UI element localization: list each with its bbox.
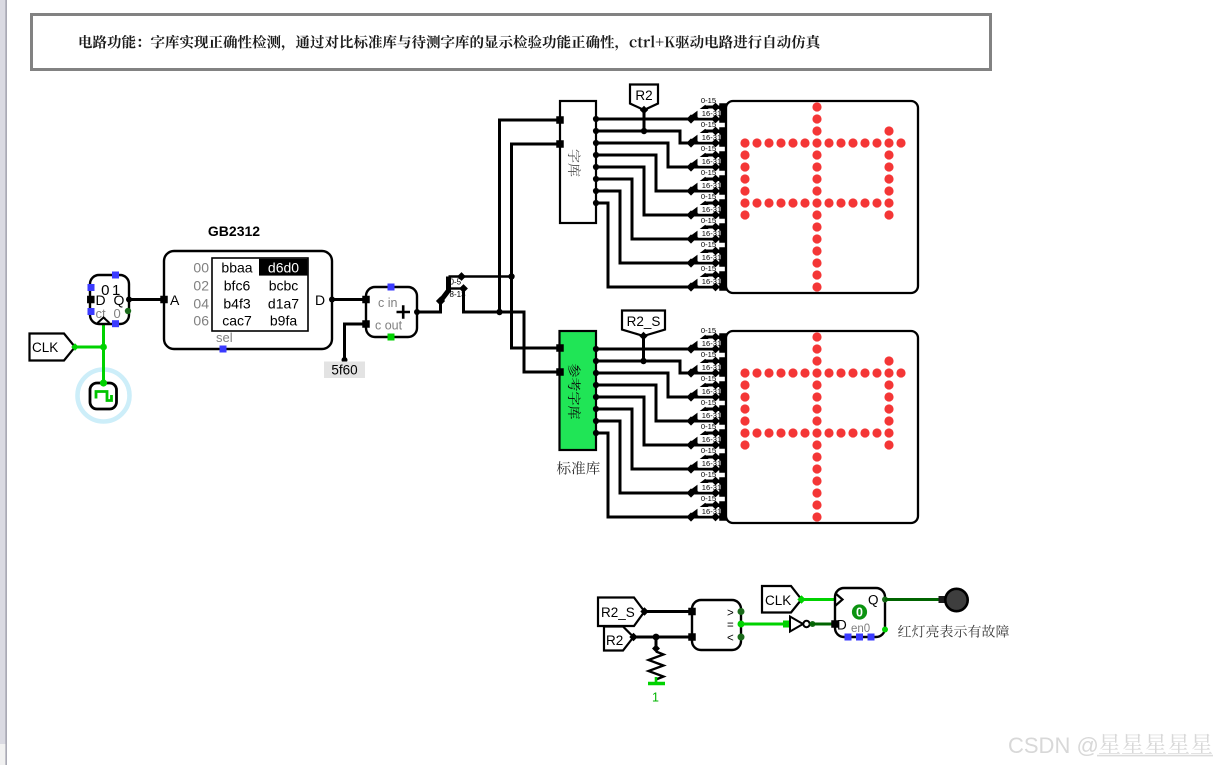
counter 01 [87,272,132,328]
svg-text:16-31: 16-31 [702,205,721,214]
constant 5f60 [324,324,366,378]
splitter 0-15/16-31 bank2 #2 [686,350,727,378]
svg-text:0-15: 0-15 [701,422,716,431]
NOT gate [790,617,816,632]
LED matrix display 1 [719,101,918,293]
ROM 参考字库 (reference) [556,331,599,450]
svg-text:<: < [727,633,734,645]
splitter 0-15/16-31 bank2 #8 [686,494,727,522]
splitter 0-15/16-31 bank1 #7 [686,240,727,268]
svg-text:0-15: 0-15 [701,120,716,129]
wire bus staircase bank 2 [596,349,691,517]
wire CLK to counter and clock [71,325,107,384]
adder c in c out [362,284,420,341]
svg-text:0-15: 0-15 [701,240,716,249]
svg-text:16-31: 16-31 [702,435,721,444]
svg-text:R2: R2 [606,633,623,648]
svg-text:0-15: 0-15 [701,144,716,153]
svg-text:16-31: 16-31 [702,387,721,396]
note banner: circuit description [32,15,991,70]
svg-text:0-15: 0-15 [701,96,716,105]
splitter 0-15/16-31 bank1 #4 [686,168,727,196]
svg-text:0-15: 0-15 [701,494,716,503]
ROM 字库 (device under test) [556,101,599,223]
wire equals to NOT gate [741,621,790,628]
wire bus 8-13 net [464,120,561,372]
svg-text:=: = [727,620,734,632]
splitter 0-15/16-31 bank2 #5 [686,422,727,450]
svg-text:0-5: 0-5 [450,278,462,287]
svg-text:b9fa: b9fa [270,313,297,329]
svg-text:bfc6: bfc6 [224,277,251,293]
svg-text:cac7: cac7 [222,313,252,329]
splitter 0-15/16-31 bank1 #3 [686,144,727,172]
svg-text:0-15: 0-15 [701,192,716,201]
svg-text:A: A [170,292,180,308]
svg-text:0: 0 [114,306,121,321]
wire CLK to register clock [802,598,836,601]
svg-text:D: D [315,292,325,308]
svg-text:0-15: 0-15 [701,350,716,359]
label 红灯亮表示有故障 [898,625,1009,638]
svg-text:16-31: 16-31 [702,363,721,372]
svg-text:d1a7: d1a7 [268,295,299,311]
svg-text:06: 06 [193,313,209,329]
svg-text:16-31: 16-31 [702,507,721,516]
tunnel CLK bottom [762,586,806,613]
svg-text:1: 1 [652,691,659,705]
svg-text:0: 0 [856,606,863,620]
svg-text:04: 04 [193,295,209,311]
splitter 0-15/16-31 bank1 #8 [686,264,727,292]
svg-text:00: 00 [193,259,209,275]
splitter 0-15/16-31 bank2 #6 [686,446,727,474]
wire Q to A [129,298,164,301]
pull resistor to 1 [648,637,665,705]
svg-text:R2_S: R2_S [601,605,635,620]
LED matrix display 2 [719,331,918,523]
svg-text:R2: R2 [635,88,652,103]
svg-text:16-31: 16-31 [702,229,721,238]
splitter 0-15/16-31 bank2 #1 [686,326,727,354]
ROM GB2312 [160,223,335,353]
splitter 0-15/16-31 bank1 #5 [686,192,727,220]
svg-text:16-31: 16-31 [702,339,721,348]
svg-text:0-15: 0-15 [701,216,716,225]
svg-text:CLK: CLK [765,593,791,608]
splitter S1 0-5/8-13 [436,272,512,306]
svg-text:bbaa: bbaa [221,259,252,275]
wire R2_S to comparator [645,610,693,613]
svg-text:0-15: 0-15 [701,446,716,455]
tunnel CLK left [30,334,76,361]
svg-text:CLK: CLK [32,340,58,355]
probe tunnel R2_S [622,311,665,365]
svg-text:0-15: 0-15 [701,470,716,479]
wire R2 to comparator [634,634,693,641]
svg-text:16-31: 16-31 [702,459,721,468]
svg-text:16-31: 16-31 [702,411,721,420]
splitter 0-15/16-31 bank2 #4 [686,398,727,426]
svg-text:bcbc: bcbc [269,277,299,293]
svg-text:16-31: 16-31 [702,181,721,190]
svg-text:0-15: 0-15 [701,374,716,383]
svg-text:0-15: 0-15 [701,264,716,273]
svg-text:16-31: 16-31 [702,109,721,118]
splitter 0-15/16-31 bank1 #2 [686,120,727,148]
wire bus 0-5 net [508,144,560,348]
svg-text:0-15: 0-15 [701,398,716,407]
wire bus staircase bank 1 [596,119,691,287]
svg-text:16-31: 16-31 [702,157,721,166]
svg-text:R2_S: R2_S [627,314,661,329]
svg-text:c out: c out [375,319,403,333]
svg-text:02: 02 [193,277,209,293]
wire Q to LED [885,596,946,603]
svg-text:5f60: 5f60 [331,363,357,378]
watermark CSDN [1008,733,1213,758]
splitter 0-15/16-31 bank2 #3 [686,374,727,402]
svg-text:c in: c in [378,296,398,310]
svg-text:en0: en0 [851,623,870,635]
svg-text:>: > [727,608,734,620]
wire NOT to register D [810,623,835,626]
splitter 0-15/16-31 bank1 #6 [686,216,727,244]
clock source [78,370,130,422]
svg-text:16-31: 16-31 [702,133,721,142]
svg-text:16-31: 16-31 [702,483,721,492]
svg-text:16-31: 16-31 [702,277,721,286]
svg-text:16-31: 16-31 [702,253,721,262]
wire adder out to splitter [417,302,441,312]
wire D to adder [332,298,366,301]
svg-text:0-15: 0-15 [701,168,716,177]
LED indicator [945,589,967,611]
svg-text:CSDN @: CSDN @ [1008,733,1099,758]
register with enable [831,588,888,641]
svg-text:GB2312: GB2312 [208,223,260,239]
svg-text:sel: sel [216,330,233,345]
splitter 0-15/16-31 bank1 #1 [686,96,727,124]
svg-text:b4f3: b4f3 [223,295,250,311]
probe tunnel R2 [630,85,658,135]
svg-text:d6d0: d6d0 [268,259,299,275]
splitter 0-15/16-31 bank2 #7 [686,470,727,498]
tunnel R2_S bottom [598,598,649,627]
svg-text:0-15: 0-15 [701,326,716,335]
label 标准库 [557,461,600,475]
tunnel R2 bottom [604,627,638,651]
svg-text:Q: Q [868,593,879,608]
comparator [688,600,744,650]
